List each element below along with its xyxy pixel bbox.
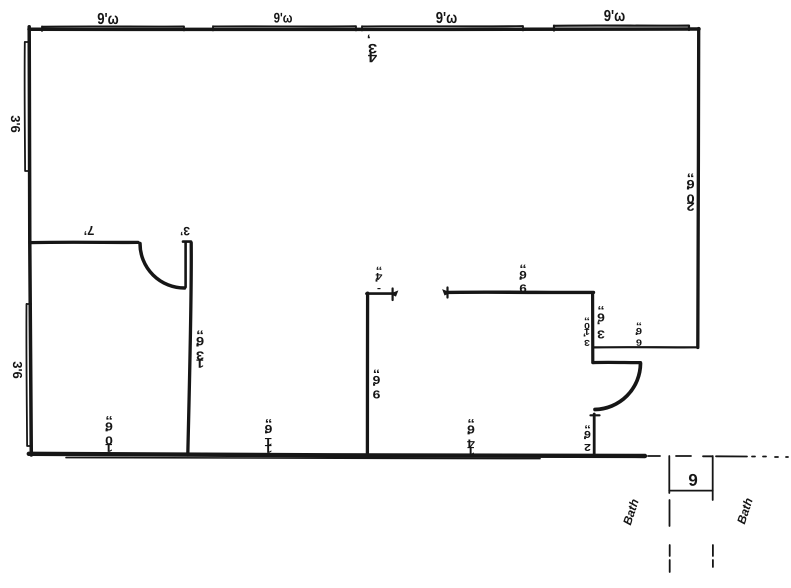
label Bath left (flipped script) [620, 497, 642, 527]
door D2 swing arc [595, 364, 641, 410]
svg-text:7’: 7’ [84, 223, 95, 238]
bath divider V1 (below bottom wall) [668, 456, 670, 572]
wall E interior (2'6) [593, 414, 596, 456]
label 1'4" wall H stub (flipped stack) [375, 266, 383, 295]
label 3' door D1 (flipped) [180, 224, 190, 238]
label 11'6" bottom middle segment (flipped stack) [264, 418, 273, 454]
stub end tick arrow [392, 289, 394, 301]
label left window WL1 3'6 (rotated sideways) [8, 115, 23, 133]
wall bottom (exterior, solid part) [29, 454, 645, 456]
door D2 leaf [593, 361, 641, 364]
svg-text:6: 6 [688, 470, 697, 489]
label 10'6" bottom left segment (flipped stack) [104, 415, 113, 453]
svg-text:14,6„: 14,6„ [466, 418, 475, 456]
svg-text:3,6„: 3,6„ [597, 305, 605, 340]
window W2 top (9'6) sill line [213, 26, 356, 30]
wall C interior (6'6) [594, 346, 698, 348]
wall right (exterior, 20'6") [696, 29, 700, 348]
svg-text:20,6„: 20,6„ [686, 173, 695, 214]
door D1 leaf [183, 242, 191, 287]
wall G interior (13'6) [188, 243, 191, 455]
label 9'6" wall A (flipped stack) [519, 264, 527, 294]
svg-text:9,6„: 9,6„ [372, 369, 380, 400]
svg-text:9,6„: 9,6„ [519, 264, 527, 294]
svg-text:9ʹω: 9ʹω [97, 11, 118, 28]
wall F interior (7') [30, 241, 138, 245]
window WL2 left (3'6) sill line [26, 304, 31, 446]
wall B interior (3'10) [591, 293, 594, 363]
svg-text:13,6„: 13,6„ [195, 330, 204, 371]
svg-text:3ʹ6: 3ʹ6 [8, 115, 23, 133]
bath connector line [669, 490, 712, 492]
window W4 top (9'6) sill line [554, 26, 689, 31]
wall bottom dashed continuation [648, 456, 788, 457]
label 9'6" wall H (flipped stack) [372, 369, 380, 400]
label 6'6" wall C (flipped stack) [635, 321, 642, 348]
window W3 top (9'6) sill line [362, 26, 523, 31]
wall top (exterior, 43') [29, 27, 699, 31]
label Bath right (flipped script) [734, 496, 756, 526]
svg-text:10,6„: 10,6„ [104, 415, 113, 453]
svg-text:11,6„: 11,6„ [264, 418, 273, 454]
wall H interior (9'6) [366, 293, 370, 455]
wall A interior (9'6) [448, 291, 594, 295]
label 3'6" wall B right (flipped stack) [597, 305, 605, 340]
door D2 end tick [591, 414, 600, 416]
window W1 top (9'6) sill line [42, 26, 184, 31]
wall left (exterior) [29, 27, 31, 455]
label 13'6" wall G (flipped stack) [195, 330, 204, 371]
label 43' overall width (flipped stack) [367, 34, 377, 66]
label 20'6" right wall (flipped stack) [686, 173, 695, 214]
label 7' wall F (flipped) [84, 223, 95, 238]
wall A left end tick [446, 288, 448, 298]
svg-text:3,10„: 3,10„ [583, 316, 590, 348]
label 14'6" bottom right segment (flipped stack) [466, 418, 475, 456]
svg-text:2,6„: 2,6„ [583, 424, 591, 452]
label left window WL2 3'6 (rotated sideways) [10, 361, 25, 379]
svg-text:3ʹ6: 3ʹ6 [10, 361, 25, 379]
bath divider V2 (below bottom wall) [712, 456, 714, 567]
wall H top stub [366, 292, 393, 295]
svg-text:9ʹω: 9ʹω [274, 10, 293, 26]
svg-text:3’: 3’ [180, 224, 190, 238]
window WL1 left (3'6) sill line [25, 42, 30, 171]
door D1 swing arc [140, 244, 185, 289]
svg-text:9ʹω: 9ʹω [436, 10, 457, 27]
label 3'10" wall B (flipped stack) [583, 316, 590, 348]
svg-text:9ʹω: 9ʹω [604, 8, 625, 25]
label 2'6" wall E (flipped stack) [583, 424, 591, 452]
label 6 bath dimension (flipped) [688, 470, 697, 489]
svg-text:6,6„: 6,6„ [635, 321, 642, 348]
